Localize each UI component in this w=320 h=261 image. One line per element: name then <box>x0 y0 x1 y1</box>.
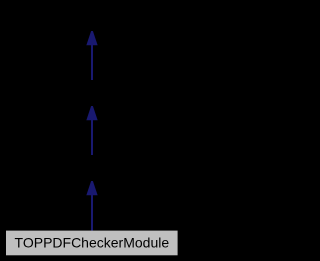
inheritance arrow (bottom) <box>86 181 97 231</box>
inheritance arrow (top) <box>86 31 97 80</box>
svg-text:TOPPDFCheckerModule: TOPPDFCheckerModule <box>15 234 170 250</box>
inheritance arrow (middle) <box>86 106 97 155</box>
node box TOPPDFCheckerModule <box>6 231 178 256</box>
